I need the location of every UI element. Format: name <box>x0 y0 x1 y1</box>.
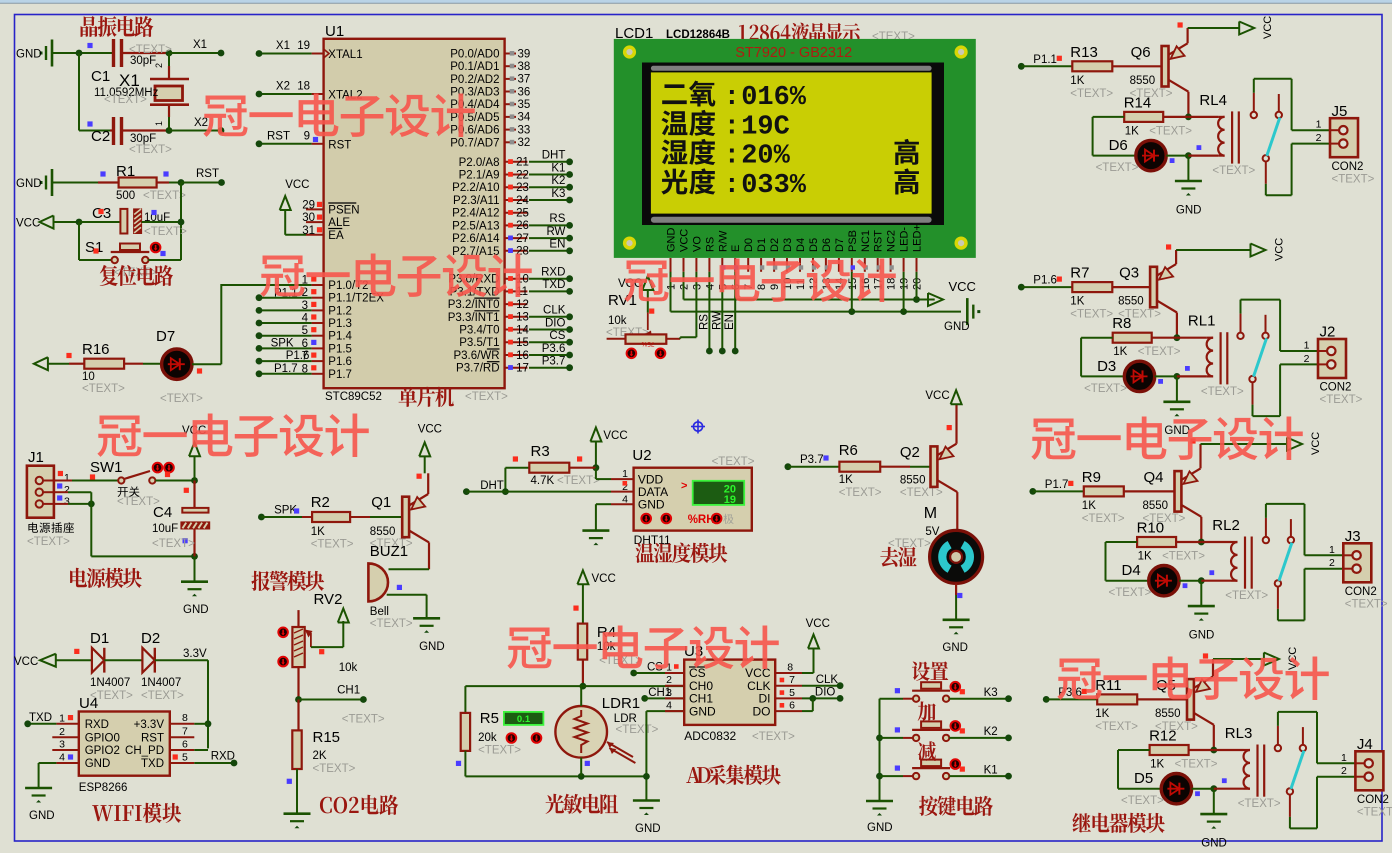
svg-text:P3.7: P3.7 <box>800 454 824 466</box>
svg-text:TXD: TXD <box>141 758 164 770</box>
svg-text:LDR1: LDR1 <box>602 695 640 712</box>
svg-text:10k: 10k <box>339 662 358 674</box>
svg-text:9: 9 <box>304 130 310 142</box>
svg-text:12: 12 <box>516 299 529 311</box>
svg-text:GND: GND <box>635 823 661 835</box>
svg-text:VCC: VCC <box>14 656 38 668</box>
svg-text:4.7K: 4.7K <box>531 475 555 487</box>
svg-text:<TEXT>: <TEXT> <box>1082 513 1125 525</box>
svg-text:P3.7/RD: P3.7/RD <box>456 363 499 375</box>
svg-text:21: 21 <box>516 157 529 169</box>
svg-text:1K: 1K <box>839 474 853 486</box>
svg-text:R13: R13 <box>1070 44 1098 61</box>
svg-text:9: 9 <box>769 284 781 290</box>
svg-text:U4: U4 <box>79 695 98 712</box>
svg-text:GND: GND <box>1189 629 1215 641</box>
svg-text:2: 2 <box>64 484 70 496</box>
svg-text:5: 5 <box>789 687 795 699</box>
svg-text:<TEXT>: <TEXT> <box>370 618 413 630</box>
svg-text:GND: GND <box>85 758 111 770</box>
svg-text:TXD: TXD <box>29 712 52 724</box>
svg-text:0.1: 0.1 <box>517 714 531 725</box>
svg-text:8: 8 <box>756 284 768 290</box>
svg-text:R5: R5 <box>480 710 499 727</box>
svg-text:3: 3 <box>666 687 672 699</box>
svg-text:EN: EN <box>724 314 736 330</box>
svg-text:K2: K2 <box>551 175 565 187</box>
svg-text:<TEXT>: <TEXT> <box>1070 88 1113 100</box>
svg-text:RST: RST <box>196 168 219 180</box>
svg-text:P0.0/AD0: P0.0/AD0 <box>450 49 499 61</box>
svg-text:P3.2/INT0: P3.2/INT0 <box>448 299 500 311</box>
svg-text:1: 1 <box>1304 340 1310 352</box>
svg-text:RXD: RXD <box>211 751 235 763</box>
svg-text:1: 1 <box>154 121 164 126</box>
svg-text:P2.0/A8: P2.0/A8 <box>459 157 500 169</box>
svg-text:<TEXT>: <TEXT> <box>616 724 659 736</box>
svg-text:D4: D4 <box>795 238 807 252</box>
svg-text:<TEXT>: <TEXT> <box>129 144 172 156</box>
svg-text:P1.6: P1.6 <box>328 356 352 368</box>
svg-text:CH_PD: CH_PD <box>125 745 164 757</box>
svg-text:19: 19 <box>724 494 736 506</box>
svg-text:D6: D6 <box>821 238 833 252</box>
svg-text:<TEXT>: <TEXT> <box>141 690 184 702</box>
svg-text:19C: 19C <box>741 113 790 143</box>
svg-text:1: 1 <box>622 468 628 480</box>
svg-text:U1: U1 <box>325 23 344 40</box>
svg-text:RS: RS <box>704 237 716 252</box>
svg-text:R3: R3 <box>531 443 550 460</box>
svg-text:VCC: VCC <box>592 573 616 585</box>
svg-text:D5: D5 <box>1134 770 1153 787</box>
svg-text:DHT: DHT <box>480 480 504 492</box>
svg-text:4: 4 <box>59 752 65 764</box>
svg-text:GND: GND <box>1176 204 1202 216</box>
svg-text:18: 18 <box>886 278 898 290</box>
svg-text:D6: D6 <box>1109 137 1128 154</box>
svg-text:SPK: SPK <box>274 505 297 517</box>
svg-text:GPIO2: GPIO2 <box>85 745 120 757</box>
svg-text:10uF: 10uF <box>144 212 170 224</box>
svg-text:<TEXT>: <TEXT> <box>1238 798 1281 810</box>
svg-text:M: M <box>924 505 937 522</box>
svg-text:GND: GND <box>944 321 970 333</box>
svg-text:DO: DO <box>753 704 771 718</box>
svg-text:33: 33 <box>518 124 531 136</box>
svg-text:2: 2 <box>666 674 672 686</box>
svg-text:<TEXT>: <TEXT> <box>1084 383 1127 395</box>
svg-text:EA: EA <box>328 230 344 242</box>
svg-text:Q2: Q2 <box>900 444 920 461</box>
svg-text:R/W: R/W <box>717 230 729 252</box>
svg-text:D7: D7 <box>834 238 846 252</box>
svg-text:GND: GND <box>666 228 678 253</box>
svg-text:<TEXT>: <TEXT> <box>1162 551 1205 563</box>
svg-text:C1: C1 <box>91 68 110 85</box>
svg-text:10: 10 <box>82 371 95 383</box>
svg-text:RXD: RXD <box>541 267 565 279</box>
svg-text:1K: 1K <box>1082 500 1096 512</box>
svg-text:RST: RST <box>267 130 290 142</box>
svg-text:2: 2 <box>1304 353 1310 365</box>
svg-text:P1.7: P1.7 <box>328 369 352 381</box>
svg-text:GND: GND <box>29 810 55 822</box>
svg-text:R14: R14 <box>1124 94 1152 111</box>
svg-text:<TEXT>: <TEXT> <box>27 536 70 548</box>
svg-text:4: 4 <box>666 700 672 712</box>
svg-text:2: 2 <box>1329 557 1335 569</box>
svg-text:8: 8 <box>787 662 793 674</box>
svg-text:<TEXT>: <TEXT> <box>1109 587 1152 599</box>
svg-text:20%: 20% <box>741 142 790 172</box>
svg-text:P2.5/A13: P2.5/A13 <box>452 220 499 232</box>
svg-text:P3.7: P3.7 <box>542 356 566 368</box>
svg-text:<TEXT>: <TEXT> <box>1320 394 1363 406</box>
svg-text:8550: 8550 <box>1118 296 1144 308</box>
svg-text:U2: U2 <box>632 447 651 464</box>
svg-text:Q4: Q4 <box>1144 469 1164 486</box>
svg-text:2: 2 <box>1341 765 1347 777</box>
svg-text:K3: K3 <box>551 188 565 200</box>
svg-text:8550: 8550 <box>1130 75 1156 87</box>
svg-text:GND: GND <box>638 497 665 511</box>
svg-text:<TEXT>: <TEXT> <box>1201 386 1244 398</box>
svg-text:R2: R2 <box>311 494 330 511</box>
svg-text:39: 39 <box>518 48 531 60</box>
svg-text:RS: RS <box>698 314 710 330</box>
svg-text:29: 29 <box>302 199 315 211</box>
svg-text:R16: R16 <box>82 341 110 358</box>
svg-text:26: 26 <box>516 220 529 232</box>
svg-text:K1: K1 <box>984 765 998 777</box>
svg-text:LED+: LED+ <box>912 224 924 252</box>
svg-text:P1.3: P1.3 <box>328 318 352 330</box>
svg-text:1N4007: 1N4007 <box>141 677 181 689</box>
svg-text:D7: D7 <box>156 328 175 345</box>
svg-text:P0.6/AD6: P0.6/AD6 <box>450 125 499 137</box>
svg-text:SW1: SW1 <box>90 459 123 476</box>
svg-text:<TEXT>: <TEXT> <box>1070 309 1113 321</box>
svg-text:2K: 2K <box>313 750 327 762</box>
svg-text:<TEXT>: <TEXT> <box>557 475 600 487</box>
svg-text:1: 1 <box>64 472 70 484</box>
svg-text:CLK: CLK <box>543 305 566 317</box>
svg-text:RW: RW <box>711 311 723 330</box>
svg-text:RS: RS <box>549 213 565 225</box>
svg-text:VCC: VCC <box>1310 432 1322 455</box>
svg-text:31: 31 <box>302 225 315 237</box>
svg-text:3: 3 <box>59 739 65 751</box>
svg-text:P3.6: P3.6 <box>542 343 566 355</box>
svg-text:P0.3/AD3: P0.3/AD3 <box>450 87 499 99</box>
svg-text:R7: R7 <box>1070 265 1089 282</box>
svg-text:P0.5/AD5: P0.5/AD5 <box>450 112 499 124</box>
svg-text:P0.2/AD2: P0.2/AD2 <box>450 74 499 86</box>
svg-text:RST: RST <box>328 139 351 151</box>
svg-text:1K: 1K <box>311 526 325 538</box>
svg-text:P2.6/A14: P2.6/A14 <box>452 233 500 245</box>
svg-text:1K: 1K <box>1095 708 1109 720</box>
svg-text:NC2: NC2 <box>886 230 898 252</box>
svg-text:RXD: RXD <box>85 719 109 731</box>
svg-text:<TEXT>: <TEXT> <box>1138 346 1181 358</box>
svg-text:XTAL1: XTAL1 <box>328 49 362 61</box>
svg-text:2: 2 <box>59 726 65 738</box>
svg-text:24: 24 <box>516 195 529 207</box>
svg-text:19: 19 <box>297 40 310 52</box>
svg-text:D3: D3 <box>1097 358 1116 375</box>
svg-text:8550: 8550 <box>1155 708 1181 720</box>
svg-text:3.3V: 3.3V <box>183 648 207 660</box>
svg-text:ALE: ALE <box>328 217 350 229</box>
svg-text:2: 2 <box>1316 132 1322 144</box>
svg-text:>: > <box>681 480 687 492</box>
svg-text:DHT: DHT <box>542 150 566 162</box>
svg-text:7: 7 <box>182 726 188 738</box>
svg-text:1: 1 <box>1316 119 1322 131</box>
svg-text:D5: D5 <box>808 238 820 252</box>
svg-text:R10: R10 <box>1137 520 1165 537</box>
svg-text:D2: D2 <box>141 630 160 647</box>
svg-text:D2: D2 <box>769 238 781 252</box>
svg-text:17: 17 <box>516 363 529 375</box>
svg-text:RL2: RL2 <box>1212 517 1240 534</box>
svg-text:16: 16 <box>516 350 529 362</box>
svg-text:RL4: RL4 <box>1199 92 1227 109</box>
svg-text:<TEXT>: <TEXT> <box>152 538 195 550</box>
svg-text:VCC: VCC <box>285 179 309 191</box>
svg-text:BUZ1: BUZ1 <box>370 543 408 560</box>
svg-text:K2: K2 <box>984 726 998 738</box>
svg-text:RST: RST <box>141 732 164 744</box>
svg-text:<TEXT>: <TEXT> <box>144 226 187 238</box>
svg-text:VCC: VCC <box>418 424 442 436</box>
svg-text::: : <box>724 171 740 201</box>
svg-text:20k: 20k <box>478 732 497 744</box>
svg-text:<TEXT>: <TEXT> <box>1095 721 1138 733</box>
svg-text:016%: 016% <box>741 83 807 113</box>
svg-text:R1: R1 <box>116 163 135 180</box>
svg-text:RV2: RV2 <box>314 591 343 608</box>
svg-text:P1.6: P1.6 <box>286 350 310 362</box>
svg-text:R9: R9 <box>1082 469 1101 486</box>
svg-text:32: 32 <box>518 137 531 149</box>
svg-text:1K: 1K <box>1070 75 1084 87</box>
svg-text:<TEXT>: <TEXT> <box>1175 759 1218 771</box>
svg-text:P3.6/WR: P3.6/WR <box>453 350 499 362</box>
svg-text:38: 38 <box>518 61 531 73</box>
svg-text:GND: GND <box>867 822 893 834</box>
svg-text:GND: GND <box>1164 425 1190 437</box>
svg-text:GND: GND <box>16 49 42 61</box>
svg-text:X2: X2 <box>276 81 290 93</box>
svg-text:PSB: PSB <box>847 230 859 252</box>
svg-text:15: 15 <box>516 337 529 349</box>
svg-text:<TEXT>: <TEXT> <box>1345 598 1388 610</box>
svg-text:VCC: VCC <box>16 218 40 230</box>
svg-text:CS: CS <box>549 330 565 342</box>
svg-text:Q3: Q3 <box>1119 265 1139 282</box>
svg-text:PSEN: PSEN <box>328 205 359 217</box>
svg-text:30: 30 <box>302 212 315 224</box>
svg-text:VO: VO <box>691 236 703 252</box>
svg-text:STC89C52: STC89C52 <box>325 391 382 403</box>
svg-text:<TEXT>: <TEXT> <box>1121 795 1164 807</box>
svg-text:P1.1: P1.1 <box>1033 54 1057 66</box>
svg-text:CON2: CON2 <box>1332 161 1364 173</box>
svg-text:<TEXT>: <TEXT> <box>82 383 125 395</box>
svg-text:GND: GND <box>689 704 716 718</box>
svg-text:RW: RW <box>546 226 565 238</box>
svg-text:<TEXT>: <TEXT> <box>712 456 755 468</box>
svg-text:10uF: 10uF <box>152 523 178 535</box>
svg-text:Bell: Bell <box>370 606 389 618</box>
svg-text:%RH: %RH <box>688 514 715 526</box>
svg-text:<TEXT>: <TEXT> <box>129 44 172 56</box>
svg-text:ESP8266: ESP8266 <box>79 782 128 794</box>
svg-text:D1: D1 <box>90 630 109 647</box>
svg-text:10k: 10k <box>608 315 627 327</box>
svg-text:DIO: DIO <box>545 317 566 329</box>
svg-text:EN: EN <box>549 239 565 251</box>
svg-text:P1.4: P1.4 <box>328 331 352 343</box>
svg-text:P1.7: P1.7 <box>274 363 298 375</box>
svg-text:X1: X1 <box>193 39 207 51</box>
svg-text:P2.4/A12: P2.4/A12 <box>452 208 499 220</box>
svg-text:P1.5: P1.5 <box>328 343 352 355</box>
svg-text:6: 6 <box>182 739 188 751</box>
svg-text:RST: RST <box>873 230 885 252</box>
svg-text:30pF: 30pF <box>130 55 156 67</box>
svg-text:VCC: VCC <box>603 430 627 442</box>
svg-text:D0: D0 <box>743 238 755 252</box>
svg-text:P0.1/AD1: P0.1/AD1 <box>450 61 499 73</box>
svg-text:X2: X2 <box>194 117 208 129</box>
svg-text:NC1: NC1 <box>860 230 872 252</box>
svg-text:8550: 8550 <box>370 526 396 538</box>
svg-text:<TEXT>: <TEXT> <box>1225 590 1268 602</box>
svg-text:<TEXT>: <TEXT> <box>160 393 203 405</box>
svg-text:033%: 033% <box>741 171 807 201</box>
svg-text:GND: GND <box>1201 837 1227 849</box>
svg-text:C4: C4 <box>153 504 172 521</box>
svg-text:23: 23 <box>516 182 529 194</box>
svg-text:25: 25 <box>516 208 529 220</box>
svg-text:1K: 1K <box>1070 296 1084 308</box>
svg-text:36: 36 <box>518 86 531 98</box>
svg-text:<TEXT>: <TEXT> <box>342 714 385 726</box>
svg-text:6: 6 <box>789 700 795 712</box>
svg-text:ADC0832: ADC0832 <box>684 729 736 743</box>
svg-text:3: 3 <box>64 496 70 508</box>
svg-text:35: 35 <box>518 99 531 111</box>
svg-text:P3.5/T1: P3.5/T1 <box>459 337 499 349</box>
svg-text:TXD: TXD <box>542 279 565 291</box>
svg-text:8: 8 <box>182 712 188 724</box>
svg-text:34: 34 <box>518 112 531 124</box>
svg-text:1: 1 <box>59 713 65 725</box>
svg-text:VCC: VCC <box>679 229 691 252</box>
svg-text:CON2: CON2 <box>1345 586 1377 598</box>
svg-text:R6: R6 <box>839 442 858 459</box>
svg-text:P2.1/A9: P2.1/A9 <box>459 170 500 182</box>
svg-text:R15: R15 <box>313 729 341 746</box>
svg-text:D3: D3 <box>782 238 794 252</box>
svg-text:J1: J1 <box>28 449 44 466</box>
svg-text:+3.3V: +3.3V <box>134 719 165 731</box>
svg-text:1: 1 <box>1341 752 1347 764</box>
svg-text:1K: 1K <box>1125 125 1139 137</box>
svg-text:1K: 1K <box>1138 551 1152 563</box>
svg-text:VCC: VCC <box>925 390 949 402</box>
svg-text:K3: K3 <box>984 687 998 699</box>
svg-text:K1: K1 <box>551 162 565 174</box>
svg-text:D4: D4 <box>1122 562 1141 579</box>
svg-text:C2: C2 <box>91 128 110 145</box>
svg-text:P3.3/INT1: P3.3/INT1 <box>448 312 500 324</box>
svg-text:VCC: VCC <box>1262 16 1274 39</box>
svg-text:75%: 75% <box>641 340 654 347</box>
svg-text:VCC: VCC <box>1274 238 1286 261</box>
svg-text:CLK: CLK <box>816 674 839 686</box>
svg-text::: : <box>724 142 740 172</box>
svg-text::: : <box>724 83 740 113</box>
svg-text:5: 5 <box>182 752 188 764</box>
svg-text:VCC: VCC <box>949 279 976 294</box>
svg-text:8550: 8550 <box>1143 500 1169 512</box>
svg-text:ST7920 - GB2312: ST7920 - GB2312 <box>735 45 852 61</box>
svg-text:500: 500 <box>116 190 135 202</box>
svg-text:<TEXT>: <TEXT> <box>1212 165 1255 177</box>
svg-text:<TEXT>: <TEXT> <box>1149 125 1192 137</box>
svg-text:1K: 1K <box>1113 346 1127 358</box>
svg-text:GPIO0: GPIO0 <box>85 732 120 744</box>
svg-text:P1.6: P1.6 <box>1033 275 1057 287</box>
svg-text:13: 13 <box>516 312 529 324</box>
svg-text:<TEXT>: <TEXT> <box>888 538 931 550</box>
svg-text:VCC: VCC <box>806 618 830 630</box>
svg-text:X1: X1 <box>276 40 290 52</box>
svg-text:CH1: CH1 <box>337 684 360 696</box>
svg-text:<TEXT>: <TEXT> <box>143 190 186 202</box>
svg-text:GND: GND <box>183 604 209 616</box>
svg-text:P2.3/A11: P2.3/A11 <box>453 195 499 207</box>
svg-text:RL3: RL3 <box>1225 725 1253 742</box>
svg-text:P1.7: P1.7 <box>1045 479 1069 491</box>
svg-text:<TEXT>: <TEXT> <box>839 487 882 499</box>
svg-text:<TEXT>: <TEXT> <box>1357 806 1392 818</box>
svg-text::: : <box>724 113 740 143</box>
svg-text:27: 27 <box>516 233 529 245</box>
svg-text:18: 18 <box>297 81 310 93</box>
svg-text:1K: 1K <box>1150 759 1164 771</box>
svg-text:<TEXT>: <TEXT> <box>311 539 354 551</box>
svg-text:P2.2/A10: P2.2/A10 <box>452 182 499 194</box>
svg-text:<TEXT>: <TEXT> <box>1332 173 1375 185</box>
svg-text:GND: GND <box>942 642 968 654</box>
svg-text:E: E <box>730 245 742 252</box>
svg-text:22: 22 <box>516 169 529 181</box>
svg-text:<TEXT>: <TEXT> <box>465 391 508 403</box>
svg-text:1: 1 <box>1329 544 1335 556</box>
svg-text:Q6: Q6 <box>1131 44 1151 61</box>
svg-text:RL1: RL1 <box>1188 313 1216 330</box>
svg-text:DIO: DIO <box>815 687 836 699</box>
svg-text:SPK: SPK <box>271 338 294 350</box>
svg-text:GND: GND <box>419 641 445 653</box>
svg-text:<TEXT>: <TEXT> <box>313 763 356 775</box>
